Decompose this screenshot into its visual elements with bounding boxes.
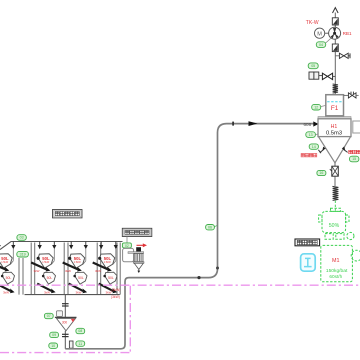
mixer machine M1 top hopper xyxy=(319,208,349,232)
svg-text:1.5kW: 1.5kW xyxy=(74,261,82,264)
feed drop arrows D3 xyxy=(69,242,88,265)
svg-text:50L: 50L xyxy=(108,276,114,280)
exhaust red arrow xyxy=(137,243,148,247)
svg-text:04: 04 xyxy=(319,43,323,47)
cyan icon xyxy=(301,254,316,271)
mixer machine mid section xyxy=(325,232,354,239)
instrument tag mixer tag e xyxy=(76,341,85,346)
svg-text:15: 15 xyxy=(352,157,356,161)
instrument tag mixer tag d xyxy=(49,343,58,348)
svg-text:M: M xyxy=(317,31,322,37)
header duct wire xyxy=(0,242,123,250)
air hammer left xyxy=(318,147,325,154)
instrument tag purge tag xyxy=(308,63,318,69)
collecting bin bottom wire xyxy=(25,294,120,296)
svg-text:10: 10 xyxy=(51,344,55,348)
zone boundary vertical xyxy=(129,286,131,353)
svg-text:12: 12 xyxy=(314,105,318,109)
label box 小料配料机 xyxy=(53,210,83,218)
surge hopper D1b xyxy=(1,272,15,284)
conveying pipe wire xyxy=(65,124,315,349)
instrument tag blower tag xyxy=(316,42,325,48)
instrument tag F1 tag xyxy=(312,104,321,110)
svg-text:300: 300 xyxy=(62,320,68,324)
pipe tick node xyxy=(232,122,234,126)
surge hopper D2b xyxy=(42,272,56,284)
weigh hopper H1 xyxy=(318,117,351,163)
inlet arrow into H1 xyxy=(313,121,318,126)
flow arrow xyxy=(249,121,258,126)
feed drop arrows D2 xyxy=(38,242,57,265)
H1 side box xyxy=(353,121,360,133)
dust collector tag xyxy=(122,243,131,248)
instrument tag mixer tag c xyxy=(50,332,59,337)
svg-text:03: 03 xyxy=(20,236,24,240)
svg-text:TK-W: TK-W xyxy=(306,20,319,26)
screw conveyor D3c xyxy=(69,284,87,295)
rotary valve RV1 xyxy=(330,166,339,176)
flange pair top xyxy=(62,304,69,306)
svg-text:1.5kW: 1.5kW xyxy=(1,261,9,264)
svg-text:(3kW): (3kW) xyxy=(112,288,121,292)
svg-text:319: 319 xyxy=(20,252,26,256)
svg-text:3kW: 3kW xyxy=(95,269,101,273)
flexible joint FJ1 xyxy=(333,84,338,93)
svg-text:50%: 50% xyxy=(329,223,340,229)
screw conveyor D4a xyxy=(93,263,114,278)
screw conveyor D1a xyxy=(0,263,11,278)
feed drop arrows D4 xyxy=(99,242,118,265)
check valve V1 xyxy=(332,18,338,25)
label 称重气锤 xyxy=(301,154,317,158)
instrument tag mixer tag a xyxy=(44,313,53,318)
mixer feed wire xyxy=(64,295,66,318)
dust filter F1 xyxy=(326,95,344,116)
svg-text:50L: 50L xyxy=(78,276,84,280)
screw conveyor D2a xyxy=(31,263,52,278)
svg-text:09: 09 xyxy=(52,333,56,337)
solenoid twin box xyxy=(309,72,322,79)
instrument tag H1 tag c xyxy=(350,156,359,162)
flange pair bottom xyxy=(62,334,69,336)
weigh hopper D3 xyxy=(68,254,85,269)
svg-text:3kW: 3kW xyxy=(34,269,40,273)
screw conveyor D3a xyxy=(63,263,84,278)
svg-text:08: 08 xyxy=(78,329,82,333)
H1 tag wire xyxy=(315,133,318,136)
svg-text:05: 05 xyxy=(311,64,315,68)
screw conveyor D2c xyxy=(37,284,55,295)
discharge gate xyxy=(69,341,73,348)
F1 side fitting xyxy=(344,92,359,98)
svg-text:150kg/bat: 150kg/bat xyxy=(326,268,348,274)
screw conveyor D4c xyxy=(99,284,117,295)
zone boundary bottom xyxy=(0,352,130,354)
wire label to filter xyxy=(126,237,128,244)
pipe junction node xyxy=(197,276,200,279)
svg-text:14: 14 xyxy=(312,145,316,149)
label box 混合机组 xyxy=(295,239,320,246)
mixer M0 xyxy=(55,317,77,330)
flexible hose FJ2 xyxy=(332,186,338,200)
svg-text:1.5kW: 1.5kW xyxy=(104,261,112,264)
zone boundary horizontal xyxy=(0,284,360,286)
svg-text:11: 11 xyxy=(78,342,82,346)
svg-text:F1: F1 xyxy=(331,105,339,112)
instrument tag H1 tag a xyxy=(306,132,316,138)
svg-text:3kW: 3kW xyxy=(76,291,82,295)
svg-text:16: 16 xyxy=(319,171,323,175)
svg-text:3kW: 3kW xyxy=(65,269,71,273)
svg-text:07: 07 xyxy=(47,314,51,318)
butterfly valve BV1 xyxy=(322,73,335,79)
svg-text:50L: 50L xyxy=(6,276,12,280)
green inlet dash wire xyxy=(334,201,336,211)
instrument tag header tag xyxy=(17,235,26,241)
air hammer right xyxy=(342,146,348,152)
frame columns wires xyxy=(19,243,120,295)
svg-text:0.5m3: 0.5m3 xyxy=(326,131,342,137)
extra labels unit D4 xyxy=(111,288,120,299)
weigh hopper D4 xyxy=(98,254,115,269)
pipe corner node xyxy=(216,267,219,270)
check valve V2 xyxy=(332,44,338,52)
svg-text:13: 13 xyxy=(309,133,313,137)
svg-text:M1: M1 xyxy=(332,258,340,264)
valve outlet wire xyxy=(334,176,336,186)
motor M xyxy=(315,28,329,38)
svg-text:50L: 50L xyxy=(47,276,53,280)
mixer machine body M1 xyxy=(321,245,360,281)
vent riser wire xyxy=(334,13,336,95)
H1 outlet wire xyxy=(334,163,336,166)
svg-text:60st/h: 60st/h xyxy=(329,274,342,279)
surge hopper D4b xyxy=(103,272,117,284)
instrument tag unit D1 tag xyxy=(17,251,29,257)
screw conveyor D1c xyxy=(0,284,15,295)
svg-text:1.5kW: 1.5kW xyxy=(42,261,50,264)
relief branch valve xyxy=(335,53,350,58)
tag tick wire xyxy=(214,226,217,227)
instrument tag RV1 tag xyxy=(317,170,326,175)
fan motor FC1 xyxy=(136,247,141,251)
feed drop arrows D1 xyxy=(0,242,15,265)
surge hopper D3b xyxy=(73,272,87,284)
suction duct xyxy=(123,248,134,261)
svg-text:(3kW): (3kW) xyxy=(111,295,120,299)
label box 中央除尘器 xyxy=(122,228,152,236)
instrument tag pipe tag xyxy=(206,225,215,230)
svg-text:06: 06 xyxy=(208,225,212,229)
mixer small tag xyxy=(57,311,63,317)
weigh hopper D2 xyxy=(37,254,54,269)
svg-text:3kW: 3kW xyxy=(44,291,50,295)
svg-text:RB1: RB1 xyxy=(343,31,352,36)
bag filter FL1 xyxy=(128,252,144,273)
F1 tag wire xyxy=(321,105,326,106)
svg-text:H1: H1 xyxy=(331,124,338,130)
svg-text:3kW: 3kW xyxy=(3,291,9,295)
instrument tag H1 tag b xyxy=(309,144,318,149)
vent arrow xyxy=(333,8,339,13)
tag wire to blower xyxy=(325,38,332,44)
svg-text:02: 02 xyxy=(125,244,129,248)
instrument tag mixer tag b xyxy=(76,328,85,333)
mixer discharge wire xyxy=(64,331,66,349)
weigh hopper D1 xyxy=(0,254,12,269)
svg-text:608: 608 xyxy=(304,122,312,127)
label right red xyxy=(349,150,360,153)
blower RB1 xyxy=(329,27,352,39)
